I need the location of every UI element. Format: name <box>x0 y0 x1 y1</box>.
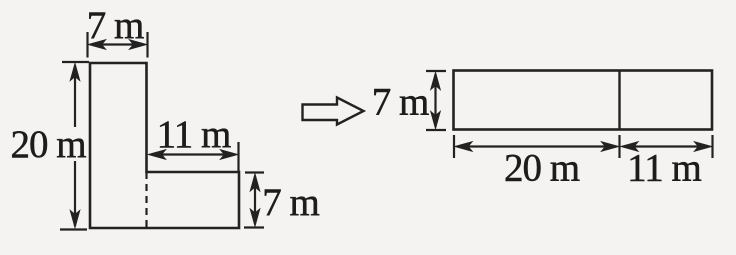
dashed division line <box>145 172 147 228</box>
L-shaped figure outline <box>90 63 239 228</box>
rectangle outline <box>454 71 713 130</box>
inner width dimension 11 m <box>152 142 239 172</box>
bottom width dimension 11 m <box>624 135 713 158</box>
rectangle divider line <box>618 71 620 130</box>
right height dimension 7 m (L-shape arm) <box>244 173 264 228</box>
bottom width dimension 20 m <box>454 135 620 158</box>
rectangle height dimension 7 m <box>426 71 446 130</box>
top width dimension 7 m <box>88 32 148 58</box>
svg-text:11 m: 11 m <box>627 147 701 190</box>
svg-text:7 m: 7 m <box>87 4 144 47</box>
svg-text:20 m: 20 m <box>504 147 580 190</box>
svg-text:11 m: 11 m <box>157 113 231 156</box>
svg-text:20 m: 20 m <box>10 123 86 166</box>
svg-text:7 m: 7 m <box>262 181 319 224</box>
left height dimension 20 m <box>60 62 89 230</box>
svg-text:7 m: 7 m <box>372 81 429 124</box>
transformation block arrow <box>303 98 364 125</box>
